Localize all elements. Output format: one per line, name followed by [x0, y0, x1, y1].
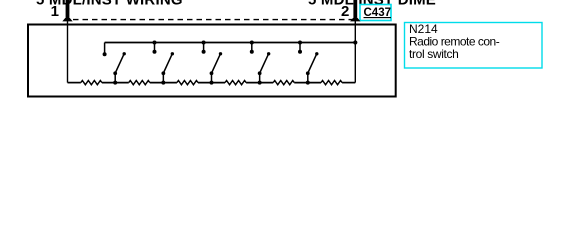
svg-text:C437: C437 [364, 7, 392, 19]
svg-text:2: 2 [341, 3, 349, 20]
svg-text:1: 1 [51, 3, 59, 20]
svg-text:trol switch: trol switch [409, 47, 459, 61]
